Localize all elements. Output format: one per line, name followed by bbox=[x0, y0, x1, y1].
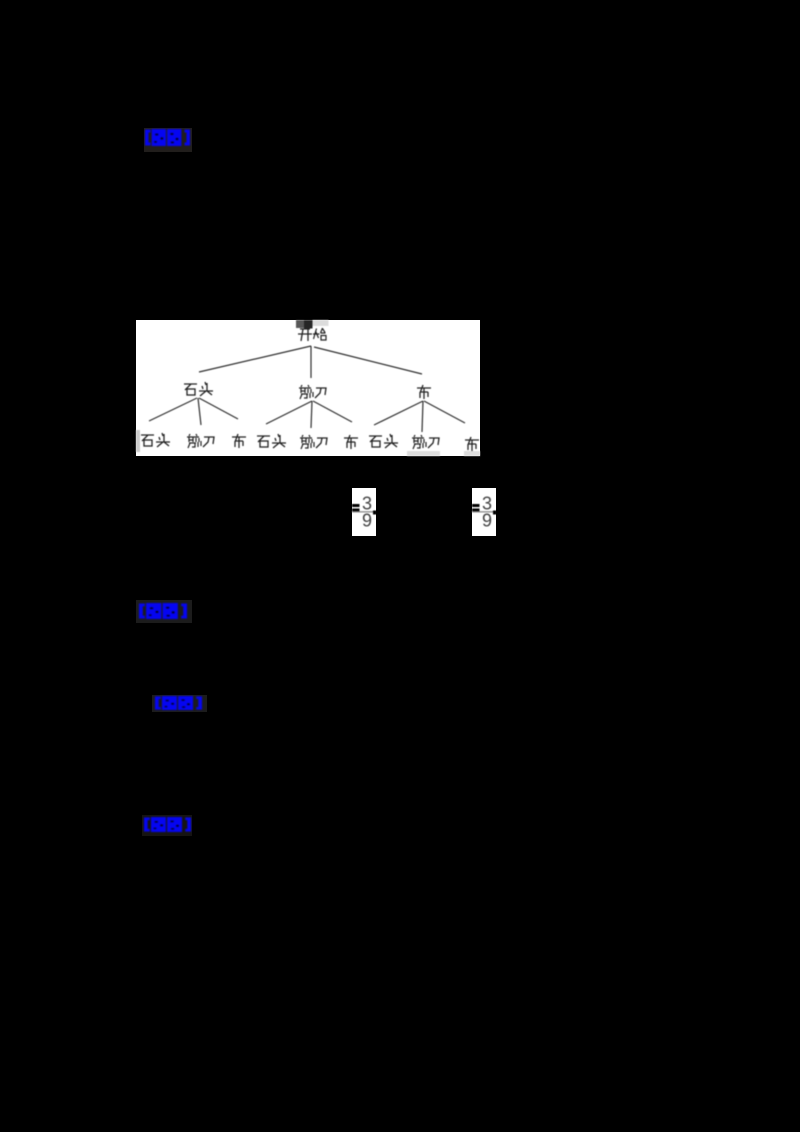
fraction 3/9 #1 bbox=[352, 488, 376, 536]
branches from root bbox=[199, 346, 422, 378]
blue label 1 【解答】 bbox=[144, 128, 192, 152]
blue label 2 【点评】 bbox=[136, 600, 192, 623]
svg-text:9: 9 bbox=[362, 511, 372, 531]
level-3 leaf labels bbox=[136, 430, 140, 452]
smudge at top bbox=[296, 320, 304, 328]
svg-text:9: 9 bbox=[482, 511, 492, 531]
fraction 3/9 #2 bbox=[472, 488, 496, 536]
fans level2 -> level3 bbox=[149, 398, 465, 432]
root 开始 bbox=[298, 329, 312, 341]
level 2 nodes bbox=[184, 384, 197, 395]
blue label 3 【分析】 bbox=[152, 695, 207, 712]
tree diagram image bbox=[136, 320, 480, 456]
blue label 4 【解答】 bbox=[142, 815, 192, 836]
